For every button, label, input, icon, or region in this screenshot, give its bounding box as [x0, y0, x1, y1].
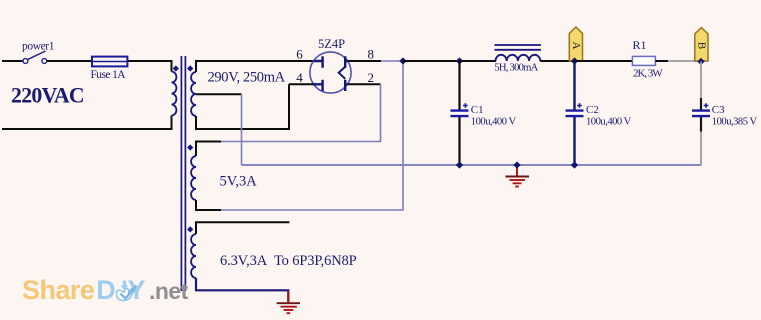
- wire R1 to B gray part: [668, 60, 701, 62]
- wire pin 8 thin part: [381, 60, 403, 62]
- svg-text:5Z4P: 5Z4P: [318, 37, 345, 51]
- secondary 290V top lead to pin 6: [196, 61, 314, 72]
- junction dot ground: [513, 161, 520, 168]
- secondary 6.3V bottom lead to ground: [196, 278, 288, 302]
- svg-text:220VAC: 220VAC: [11, 83, 84, 107]
- svg-text:C1: C1: [471, 104, 484, 116]
- filament zigzag: [339, 67, 346, 79]
- ground at 6.3V winding (red): [277, 291, 300, 313]
- transformer primary polarity dot: [173, 65, 179, 71]
- svg-text:2K, 3W: 2K, 3W: [633, 68, 663, 80]
- junction dot B+ takeoff: [399, 57, 406, 64]
- capacitor C2 plates: [566, 111, 584, 117]
- transformer T primary coil: [172, 72, 177, 116]
- svg-text:6: 6: [296, 47, 303, 62]
- secondary 290V center tap stub: [196, 93, 242, 95]
- junction dot B: [697, 58, 704, 65]
- svg-text:5H, 300mA: 5H, 300mA: [494, 63, 538, 74]
- capacitor C2 plus mark: [577, 103, 582, 108]
- ground at rail (red): [506, 165, 530, 187]
- capacitor C1 bottom lead: [458, 117, 460, 165]
- wire pin 8 black part: [348, 60, 381, 62]
- wire pin 4: [289, 83, 314, 85]
- switch power1 contact circle right: [42, 59, 47, 64]
- filament bar pin 8: [345, 56, 348, 67]
- switch power1 contact circle left: [23, 59, 28, 64]
- secondary 6.3V top lead open wire: [196, 222, 289, 234]
- svg-text:2: 2: [368, 70, 375, 85]
- svg-text:8: 8: [368, 47, 375, 62]
- terminal flag B: [695, 28, 708, 62]
- svg-text:C2: C2: [586, 104, 599, 116]
- junction dot C2 bottom: [571, 161, 578, 168]
- svg-text:power1: power1: [22, 41, 55, 53]
- wire pin 2 black part: [348, 83, 381, 85]
- svg-text:100u,385 V: 100u,385 V: [712, 116, 758, 127]
- secondary 5V polarity dot: [187, 144, 193, 150]
- ground rail (bottom): [242, 164, 702, 166]
- junction dot C1 top: [456, 57, 463, 64]
- logo hand icon: [117, 281, 137, 301]
- top rail C1 to inductor: [460, 60, 497, 62]
- wire 5V winding bottom to B+ takeoff: [221, 61, 403, 210]
- capacitor C2 top lead: [573, 61, 575, 110]
- capacitor C3 top lead dark stub: [700, 98, 702, 110]
- svg-text:6.3V,3A To 6P3P,6N8P: 6.3V,3A To 6P3P,6N8P: [220, 253, 357, 269]
- terminal flag A: [569, 27, 582, 61]
- wire pin 2 to 5V winding top: [221, 84, 381, 141]
- anode plate pin 6: [314, 56, 323, 67]
- svg-text:4: 4: [296, 70, 303, 85]
- wire switch to fuse: [47, 60, 92, 62]
- svg-text:B: B: [695, 42, 707, 49]
- capacitor C3 plates: [692, 111, 710, 117]
- junction dot C1 bottom: [456, 161, 463, 168]
- capacitor C3 plus mark: [704, 103, 709, 108]
- secondary 5V winding coil: [191, 156, 196, 200]
- capacitor C1 top lead: [458, 61, 460, 110]
- switch power1 lever: [28, 51, 46, 60]
- secondary 290V winding coil: [191, 72, 196, 116]
- svg-text:100u,400 V: 100u,400 V: [586, 116, 632, 127]
- top rail B+ to C1: [403, 60, 460, 62]
- fuse Fuse 1A body: [92, 57, 127, 67]
- capacitor C1 plates: [451, 111, 469, 117]
- svg-text:.net: .net: [149, 278, 189, 304]
- svg-text:290V, 250mA: 290V, 250mA: [208, 70, 286, 86]
- wire AC return: [2, 116, 172, 130]
- secondary 5V top lead stub: [196, 142, 221, 157]
- inductor core bars: [495, 45, 542, 50]
- secondary 6.3V polarity dot: [187, 226, 193, 232]
- secondary 290V bottom lead: [196, 84, 289, 129]
- capacitor C3 bottom lead gray: [700, 132, 702, 166]
- transformer T primary top lead: [172, 61, 173, 72]
- svg-text:R1: R1: [633, 38, 647, 52]
- capacitor C3 top lead gray: [700, 62, 702, 104]
- svg-text:Share: Share: [22, 275, 95, 305]
- logo ShareDIY.net: [22, 275, 189, 305]
- wire A to R1: [575, 60, 633, 62]
- secondary 5V bottom lead stub: [196, 200, 221, 210]
- svg-text:D: D: [96, 275, 116, 305]
- secondary 6.3V winding coil: [191, 234, 196, 278]
- wire center tap drop: [241, 94, 243, 165]
- resistor R1 body: [632, 56, 655, 65]
- svg-text:A: A: [570, 42, 582, 50]
- capacitor C1 plus mark: [463, 103, 468, 108]
- transformer core line left: [180, 56, 182, 291]
- capacitor C3 bottom lead dark stub: [700, 117, 702, 132]
- secondary 290V polarity dot: [187, 65, 193, 71]
- wire fuse to transformer primary: [128, 60, 173, 62]
- transformer core line right: [184, 56, 186, 291]
- wire R1 to B black part: [655, 60, 668, 62]
- svg-text:Fuse 1A: Fuse 1A: [91, 69, 127, 81]
- svg-text:100u,400 V: 100u,400 V: [471, 116, 517, 127]
- fuse element line: [93, 61, 127, 63]
- wire AC live from left edge: [2, 60, 23, 62]
- top rail inductor to A: [540, 60, 574, 62]
- anode plate pin 4: [314, 80, 323, 91]
- junction dot A: [571, 57, 578, 64]
- inductor 5H coil: [496, 55, 541, 61]
- svg-text:C3: C3: [712, 104, 725, 116]
- filament bar pin 2: [345, 80, 347, 91]
- tube 5Z4P envelope circle: [310, 52, 351, 93]
- capacitor C2 bottom lead: [573, 117, 575, 165]
- svg-text:5V,3A: 5V,3A: [220, 174, 258, 190]
